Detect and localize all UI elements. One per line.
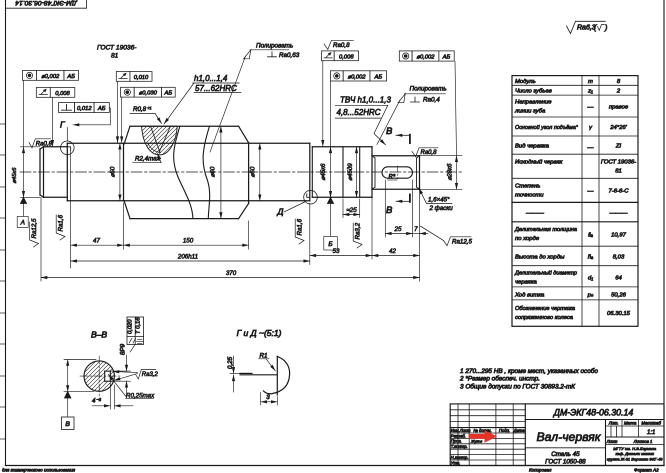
svg-text:pₕ: pₕ bbox=[587, 293, 594, 299]
dim 42: line bbox=[372, 255, 420, 257]
table row lines bbox=[512, 84, 638, 86]
svg-text:50,26: 50,26 bbox=[611, 293, 626, 299]
svg-text:0,008: 0,008 bbox=[55, 91, 70, 97]
svg-text:по хорде: по хорде bbox=[515, 236, 540, 242]
svg-text:Пров.: Пров. bbox=[451, 439, 462, 444]
svg-text:В: В bbox=[65, 421, 70, 428]
keyway R* label bbox=[388, 175, 398, 181]
svg-text:Ra0,4: Ra0,4 bbox=[423, 97, 440, 104]
svg-text:γ: γ bbox=[589, 125, 593, 131]
roughness Ra12.5 right end with leader bbox=[420, 226, 472, 246]
svg-text:Г и Д ~(5:1): Г и Д ~(5:1) bbox=[237, 328, 282, 338]
svg-text:Полировать: Полировать bbox=[410, 85, 447, 92]
svg-text:53: 53 bbox=[333, 248, 340, 255]
note Полировать Ra0.63 (worm flank) bbox=[210, 43, 300, 153]
dim 3: line bbox=[261, 401, 278, 403]
table column lines bbox=[581, 76, 583, 327]
dim ⌀50 left: line bbox=[119, 143, 121, 201]
datum B dimension extensions bbox=[64, 359, 96, 361]
dim ⌀50 right: line bbox=[259, 143, 261, 201]
svg-text:———: ——— bbox=[525, 211, 544, 217]
datum A triangle bbox=[20, 197, 26, 203]
svg-text:2 *Размер обеспеч. инстр.: 2 *Размер обеспеч. инстр. bbox=[459, 375, 540, 383]
svg-text:червяка: червяка bbox=[515, 280, 537, 286]
svg-text:Жуков: Жуков bbox=[470, 440, 482, 444]
svg-text:АБ: АБ bbox=[97, 106, 106, 112]
svg-text:Основной угол подъёма°: Основной угол подъёма° bbox=[515, 124, 579, 131]
face between ⌀45k6 and ⌀45d9 bbox=[342, 147, 344, 198]
worm left chamfer bbox=[124, 126, 130, 144]
frame F1 concentricity ⌀0.002 АБ (left journal) bbox=[23, 71, 79, 81]
svg-text:1 270...295 НВ , кроме мест, у: 1 270...295 НВ , кроме мест, указанных о… bbox=[460, 367, 598, 375]
section centerlines bbox=[80, 375, 120, 377]
svg-text:25: 25 bbox=[394, 226, 402, 233]
note R0.25max with leader bbox=[109, 375, 156, 400]
svg-text:R2,4max: R2,4max bbox=[135, 156, 161, 163]
roughness Ra12.5 far left (rotated) bbox=[30, 218, 39, 247]
svg-text:А: А bbox=[20, 220, 25, 227]
svg-text:—: — bbox=[587, 145, 594, 151]
note Полировать Ra0.4 (seal journal) bbox=[377, 85, 447, 144]
right journals outline ⌀45k6/⌀45d9 bbox=[312, 146, 372, 148]
svg-text:Вал-червяк: Вал-червяк bbox=[537, 430, 602, 444]
dim ⌀45d9: line bbox=[356, 147, 358, 198]
svg-text:≈25: ≈25 bbox=[346, 207, 357, 214]
svg-text:В: В bbox=[386, 126, 393, 137]
right journal chamfer line bbox=[311, 147, 313, 198]
svg-text:0,008: 0,008 bbox=[339, 54, 354, 60]
keyway depth dim line with outside arrows bbox=[92, 405, 110, 407]
svg-text:47: 47 bbox=[93, 238, 100, 245]
svg-text:R0,8⁺¹: R0,8⁺¹ bbox=[133, 106, 151, 113]
right zone verticals bbox=[605, 420, 607, 466]
svg-text:ДМ-ЭКГ48-06.30.14: ДМ-ЭКГ48-06.30.14 bbox=[553, 408, 634, 418]
groove arc outline bbox=[264, 356, 290, 393]
left journal outline ⌀45k6 bbox=[44, 146, 68, 148]
title block vertical lines left part bbox=[457, 404, 459, 466]
output end chamfer right bbox=[416, 158, 418, 187]
frame F3 perpendicularity 0.012 АБ bbox=[59, 103, 111, 125]
svg-text:⌀45к6: ⌀45к6 bbox=[320, 163, 327, 181]
frame F2 runout 0.008 (left journal) bbox=[36, 88, 75, 147]
dim ⌀45k6 left: line bbox=[23, 147, 25, 198]
sheet frame left border bbox=[5, 0, 7, 466]
svg-text:h1,0...1,4: h1,0...1,4 bbox=[194, 74, 228, 83]
left border ruler ticks bbox=[0, 124, 6, 439]
svg-text:сопряженного колеса: сопряженного колеса bbox=[515, 315, 574, 321]
svg-text:ZI: ZI bbox=[615, 144, 622, 150]
svg-text:Г: Г bbox=[60, 120, 66, 130]
svg-text:2: 2 bbox=[616, 89, 621, 95]
svg-text:№ докум.: № докум. bbox=[473, 428, 491, 433]
svg-text:точности: точности bbox=[515, 193, 544, 199]
svg-text:3: 3 bbox=[266, 394, 270, 401]
svg-text:⌀0,002: ⌀0,002 bbox=[417, 55, 436, 61]
svg-text:1:1: 1:1 bbox=[647, 430, 655, 436]
svg-text:Исходный червяк: Исходный червяк bbox=[515, 159, 563, 166]
svg-text:z₁: z₁ bbox=[587, 89, 593, 95]
svg-text:Подп.: Подп. bbox=[499, 428, 510, 433]
leader and label Г bbox=[66, 128, 68, 142]
svg-text:Ra0,63: Ra0,63 bbox=[279, 52, 300, 59]
svg-text:—: — bbox=[587, 105, 594, 111]
worm left face bbox=[123, 143, 125, 201]
svg-text:150: 150 bbox=[183, 238, 194, 245]
note ТВЧ h1.0..1.3 / 4.8..52HRC with leader bbox=[335, 96, 391, 145]
note h1.0..1.4 / 57..62HRC with leader bbox=[164, 74, 241, 124]
лит sub columns bbox=[610, 426, 612, 437]
svg-text:0,010: 0,010 bbox=[134, 75, 149, 81]
svg-text:Дата: Дата bbox=[513, 428, 526, 433]
svg-text:для коммерческого использовани: для коммерческого использования bbox=[2, 468, 76, 473]
roughness Ra1.6 under right shoulder (rotated) bbox=[295, 218, 304, 244]
frame F4 runout 0.010 (worm) bbox=[116, 72, 152, 143]
face at end of ⌀45d9 bbox=[359, 147, 361, 198]
parallelism/symmetry frame rotated bbox=[127, 317, 144, 352]
svg-text:0,012: 0,012 bbox=[77, 106, 92, 112]
svg-text:7-6-6-С: 7-6-6-С bbox=[609, 189, 630, 195]
svg-text:Ra3,2: Ra3,2 bbox=[142, 372, 159, 378]
svg-text:Делительный диаметр: Делительный диаметр bbox=[514, 270, 578, 277]
detail circle Д bbox=[304, 190, 318, 204]
relief groove notch at Д bbox=[307, 194, 310, 198]
svg-text:57...62HRC: 57...62HRC bbox=[195, 84, 237, 93]
svg-text:группа Ж-61 Вариант ЭКГ-48: группа Ж-61 Вариант ЭКГ-48 bbox=[607, 457, 663, 462]
roughness Ra0.8 above F6 bbox=[324, 40, 353, 49]
keyway notch (void) bbox=[105, 371, 111, 381]
svg-text:Обозначение чертежа: Обозначение чертежа bbox=[515, 306, 576, 312]
keyway centre tick bbox=[396, 166, 398, 179]
svg-text:Число зубьев: Число зубьев bbox=[515, 89, 552, 95]
leader and label Д bbox=[284, 202, 306, 213]
svg-text:Сталь 45: Сталь 45 bbox=[551, 451, 580, 458]
svg-text:Н.контр.: Н.контр. bbox=[451, 455, 469, 460]
svg-text:Масса: Масса bbox=[624, 420, 637, 425]
svg-text:206h11: 206h11 bbox=[177, 254, 198, 261]
note 1.6x45 2 фаски bbox=[419, 188, 453, 212]
shoulder face at groove Г bbox=[66, 143, 68, 201]
svg-text:⌀0,002: ⌀0,002 bbox=[348, 74, 367, 80]
svg-text:Листов 1: Листов 1 bbox=[633, 439, 653, 444]
svg-text:0,25: 0,25 bbox=[227, 356, 234, 369]
svg-text:Утв.: Утв. bbox=[451, 460, 461, 465]
svg-text:⌀60: ⌀60 bbox=[210, 166, 217, 177]
svg-text:⌀50: ⌀50 bbox=[110, 166, 117, 177]
left chamfer diagonals bbox=[40, 147, 44, 149]
part name Вал-червяк bbox=[525, 447, 605, 449]
title block sign rows bbox=[450, 427, 525, 429]
dim ⌀28k6: line bbox=[456, 156, 458, 190]
svg-text:⌀0,030: ⌀0,030 bbox=[139, 91, 158, 97]
worm thread helix curve 1 bbox=[174, 126, 193, 218]
dim 7: line bbox=[413, 233, 420, 235]
svg-text:⌀50: ⌀50 bbox=[249, 166, 256, 177]
svg-text:АБ: АБ bbox=[163, 91, 172, 97]
svg-text:Ra0,8: Ra0,8 bbox=[36, 142, 53, 148]
datum Б box bbox=[324, 237, 338, 251]
svg-text:Ra1,6: Ra1,6 bbox=[297, 218, 304, 235]
svg-text:Модуль: Модуль bbox=[515, 79, 536, 85]
svg-text:Т.контр.: Т.контр. bbox=[451, 444, 468, 449]
dim 150: line bbox=[124, 244, 249, 246]
svg-text:Степень: Степень bbox=[515, 184, 540, 190]
svg-text:4,8...52HRC: 4,8...52HRC bbox=[337, 108, 381, 117]
svg-text:АБ: АБ bbox=[373, 74, 382, 80]
svg-text:370: 370 bbox=[226, 270, 237, 277]
svg-text:10,97: 10,97 bbox=[611, 233, 626, 239]
roughness Ra1.6 under groove Г (rotated) bbox=[56, 214, 65, 240]
detail circle Г bbox=[61, 141, 75, 155]
svg-text:⌀0,002: ⌀0,002 bbox=[41, 74, 60, 80]
frame F5 concentricity ⌀0.030 АБ (worm) bbox=[121, 87, 176, 142]
svg-text:Лист: Лист bbox=[606, 439, 618, 444]
svg-text:В: В bbox=[386, 205, 393, 216]
shaft left chamfer line bbox=[43, 147, 45, 198]
svg-text:линии зуба: линии зуба bbox=[514, 109, 546, 115]
output end face bbox=[419, 156, 421, 190]
groove shoulder face vertical bbox=[276, 356, 278, 395]
dim 47: extensions bbox=[70, 150, 72, 268]
svg-text:⌀45к6: ⌀45к6 bbox=[12, 167, 18, 184]
dim ⌀45k6 right: line (also datum Б stem and frame F8 leader) bbox=[330, 147, 332, 198]
right zone rows bbox=[606, 425, 665, 427]
roughness Ra3.2 keyway flanks with two leaders bbox=[113, 370, 158, 381]
svg-text:каф. Детали машин: каф. Детали машин bbox=[615, 451, 654, 456]
dim ≈25 seal journal: extensions bbox=[342, 199, 344, 218]
svg-text:h̄ₐ: h̄ₐ bbox=[588, 255, 593, 261]
svg-text:Ход витка: Ход витка bbox=[514, 293, 545, 299]
keyway width 8P9: extensions bbox=[110, 370, 130, 372]
dim 370: line bbox=[41, 277, 420, 279]
svg-text:Ra1,6: Ra1,6 bbox=[58, 214, 65, 231]
svg-text:): ) bbox=[604, 25, 607, 32]
worm outer cylinder bbox=[130, 125, 239, 127]
svg-text:Т 0,16: Т 0,16 bbox=[136, 317, 142, 334]
frame F8 concentricity ⌀0.002 АБ (right journal) bbox=[330, 71, 386, 81]
svg-text:81: 81 bbox=[111, 53, 119, 60]
roughness Ra0.8 output end bbox=[412, 148, 438, 157]
⌀50 left section top/bottom (also worm root lines) bbox=[67, 142, 309, 144]
svg-text:Копировал: Копировал bbox=[529, 467, 552, 472]
svg-text:0,020: 0,020 bbox=[128, 319, 134, 334]
svg-text:Вид червяка: Вид червяка bbox=[515, 144, 550, 150]
svg-text:ТВЧ h1,0...1,3: ТВЧ h1,0...1,3 bbox=[340, 96, 391, 105]
svg-text:Д: Д bbox=[277, 207, 284, 217]
datum A box bbox=[17, 217, 28, 228]
svg-text:ГОСТ 19036-: ГОСТ 19036- bbox=[97, 45, 137, 52]
datum B dimension line bbox=[67, 360, 69, 392]
svg-text:8,03: 8,03 bbox=[613, 255, 625, 261]
svg-text:Ra6,3: Ra6,3 bbox=[577, 25, 596, 32]
dim 0.25: arrows bbox=[233, 356, 235, 373]
main view centerline bbox=[20, 171, 464, 173]
frame F7 concentricity ⌀0.002 АБ (output end) bbox=[399, 51, 454, 61]
worm right face bbox=[248, 143, 250, 204]
relief groove notch at Г bbox=[67, 147, 70, 150]
datum B triangle bbox=[65, 392, 71, 398]
svg-text:42: 42 bbox=[389, 248, 396, 255]
title block upper reserve rows bbox=[450, 409, 525, 411]
svg-text:06.30.15: 06.30.15 bbox=[607, 311, 631, 317]
svg-text:Ra0,8: Ra0,8 bbox=[421, 150, 438, 156]
table outline bbox=[512, 76, 638, 327]
frame F6 runout 0.008 (right journal) bbox=[322, 51, 359, 146]
svg-text:Полировать: Полировать bbox=[256, 43, 293, 50]
svg-text:Ra0,8: Ra0,8 bbox=[333, 42, 350, 49]
svg-text:7: 7 bbox=[414, 226, 418, 233]
svg-text:Формат А2: Формат А2 bbox=[634, 467, 659, 472]
svg-text:(: ( bbox=[594, 25, 597, 32]
sheet frame right border bbox=[663, 0, 665, 466]
svg-text:Изм.Лист: Изм.Лист bbox=[451, 428, 471, 433]
svg-text:АБ: АБ bbox=[442, 55, 451, 61]
dim 25 keyway: line bbox=[385, 233, 412, 235]
svg-text:Ra12,5: Ra12,5 bbox=[31, 218, 38, 239]
keyway slot on output end bbox=[382, 167, 413, 178]
svg-text:24°26': 24°26' bbox=[609, 125, 627, 131]
datum B box bbox=[62, 417, 75, 430]
keyway depth 4 dim: extensions bbox=[109, 383, 111, 409]
svg-text:m: m bbox=[588, 79, 593, 85]
top-left inverted stamp box bbox=[6, 0, 87, 8]
roughness Ra3.2 under seal journal (rotated) bbox=[353, 222, 362, 248]
svg-text:64: 64 bbox=[615, 276, 622, 282]
svg-text:ГОСТ 19036-: ГОСТ 19036- bbox=[601, 160, 636, 166]
groove surface lines bbox=[240, 372, 252, 374]
svg-text:Ra3,2: Ra3,2 bbox=[355, 222, 362, 239]
svg-text:—: — bbox=[587, 189, 594, 195]
title block outline bbox=[450, 404, 664, 466]
svg-text:⌀28к6: ⌀28к6 bbox=[447, 163, 454, 181]
svg-text:Масштаб: Масштаб bbox=[641, 420, 661, 425]
svg-text:Ra12,5: Ra12,5 bbox=[452, 239, 473, 246]
red arrow stamp bbox=[469, 430, 498, 443]
svg-text:Направление: Направление bbox=[515, 100, 552, 106]
svg-text:Разраб.: Разраб. bbox=[451, 433, 466, 438]
svg-text:8: 8 bbox=[617, 79, 621, 85]
dim 53: line bbox=[310, 255, 372, 257]
dim ⌀28k6: extension lines bbox=[420, 155, 463, 157]
svg-text:R1: R1 bbox=[260, 353, 268, 360]
svg-text:81: 81 bbox=[615, 169, 622, 175]
svg-text:Лит.: Лит. bbox=[608, 420, 619, 425]
svg-text:s̄ₐ: s̄ₐ bbox=[588, 233, 593, 239]
roughness Ra0.8 left journal bbox=[29, 139, 52, 148]
svg-text:R*: R* bbox=[389, 175, 396, 181]
worm thread helix curve 2 bbox=[203, 126, 210, 218]
svg-text:1,6×45°: 1,6×45° bbox=[428, 197, 450, 204]
worm right chamfer bbox=[239, 126, 249, 143]
step face to output end bbox=[371, 147, 373, 198]
general roughness mark Ra6.3 top right bbox=[567, 21, 608, 33]
svg-text:В–В: В–В bbox=[91, 330, 107, 340]
svg-text:Высота до хорды: Высота до хорды bbox=[515, 255, 565, 261]
svg-text:правое: правое bbox=[609, 105, 629, 111]
note R0.8 with leader bbox=[130, 106, 162, 124]
keyway notch lines bbox=[105, 370, 111, 372]
svg-text:ГОСТ 1050-88: ГОСТ 1050-88 bbox=[545, 459, 586, 466]
doc number cell bbox=[525, 419, 664, 421]
svg-text:Делительная толщина: Делительная толщина bbox=[514, 227, 578, 233]
dim 206h11: line bbox=[71, 260, 310, 262]
note R2.4max with leader bbox=[133, 154, 162, 163]
output end chamfer left bbox=[374, 158, 376, 187]
svg-text:———: ——— bbox=[609, 211, 628, 217]
dim 3: extensions bbox=[260, 393, 262, 406]
svg-text:3 Общие допуски по ГОСТ 30893.: 3 Общие допуски по ГОСТ 30893.2-mК bbox=[460, 382, 576, 390]
svg-text:2 фаски: 2 фаски bbox=[429, 205, 454, 212]
svg-text:8Р9: 8Р9 bbox=[120, 343, 127, 355]
svg-text:d₁: d₁ bbox=[588, 276, 593, 282]
8P9 dimension arrows bbox=[126, 355, 128, 371]
dim ≈25: line bbox=[343, 214, 360, 216]
svg-text:ДМ-ЭКГ48-06.30.14: ДМ-ЭКГ48-06.30.14 bbox=[15, 0, 78, 6]
shaft left end face bbox=[39, 149, 41, 195]
output end ⌀28k6 outline bbox=[372, 155, 420, 157]
svg-text:АБ: АБ bbox=[66, 74, 75, 80]
svg-text:⌀45д9: ⌀45д9 bbox=[347, 163, 354, 181]
dim ⌀60: line bbox=[220, 126, 222, 218]
dim 25 keyway: extensions bbox=[384, 180, 386, 237]
shoulder face right (at Д) bbox=[309, 143, 311, 201]
dim 47: line bbox=[71, 244, 124, 246]
sheet frame bottom border bbox=[6, 465, 665, 467]
svg-text:4⁻²: 4⁻² bbox=[92, 398, 102, 405]
datum Б triangle bbox=[327, 197, 333, 203]
